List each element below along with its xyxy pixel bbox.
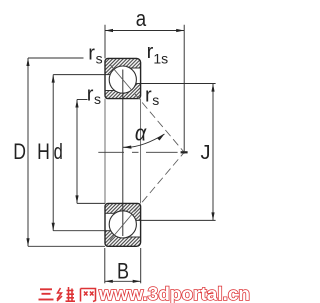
dimension H: bottom arrow: [52, 223, 55, 231]
svg-text:d: d: [54, 140, 63, 165]
svg-text:r: r: [88, 43, 95, 65]
contact line through upper ball (to pressure centre): [110, 64, 184, 152]
watermark: chinese char 维: [57, 287, 75, 301]
dimension D: top arrow: [26, 58, 29, 66]
dimension d: bottom leader: [77, 202, 105, 204]
ball pitch vertical centerline: [122, 70, 124, 237]
svg-text:r: r: [87, 83, 94, 105]
svg-text:1s: 1s: [153, 50, 168, 66]
outer/inner ring outline lower box: [105, 203, 141, 246]
dimension B: right extension line: [140, 248, 142, 283]
svg-text:α: α: [135, 121, 147, 145]
dimension a: line: [105, 30, 184, 32]
svg-text:s: s: [152, 92, 159, 108]
contact line through lower ball (to pressure centre): [110, 152, 184, 240]
raceway shoulder line lower inner-left: [105, 212, 115, 214]
raceway shoulder line upper-left (H level): [105, 74, 110, 76]
dimension D: top leader: [28, 57, 84, 59]
svg-text:s: s: [94, 91, 101, 107]
dimension B: right arrow: [133, 280, 141, 283]
dimension J: bottom arrow: [211, 212, 214, 220]
dimension B: line: [105, 280, 141, 282]
dimension d: line: [76, 100, 78, 204]
bearing face line right (between sections): [140, 99, 142, 204]
pressure centre tick: [181, 151, 188, 153]
dimension H: bottom leader: [53, 230, 105, 232]
bearing face line left (between sections): [104, 99, 106, 204]
horizontal axis centerline: [98, 151, 124, 153]
svg-text:B: B: [117, 260, 129, 284]
dimension H: line: [52, 75, 54, 231]
dimension H: top leader: [53, 74, 105, 76]
dimension J: bottom leader: [141, 219, 216, 221]
inner ring upper section (hatched): [105, 84, 141, 99]
svg-text:r: r: [145, 84, 152, 106]
dimension D: line: [27, 58, 29, 246]
inner ring lower section (hatched): [105, 203, 141, 220]
dimension B: left arrow: [105, 280, 113, 283]
outer ring lower section (hatched): [105, 231, 141, 247]
contact angle arc with arrows: [123, 134, 165, 147]
dimension d: top arrow: [75, 100, 78, 108]
ball upper: [109, 66, 136, 93]
raceway shoulder line upper inner-left: [105, 90, 115, 92]
raceway shoulder line lower inner-right (J level): [136, 219, 141, 221]
raceway shoulder line lower-right: [128, 236, 141, 238]
dimension d: bottom arrow: [75, 195, 78, 203]
svg-text:J: J: [201, 142, 211, 164]
dimension a: right arrow: [176, 29, 184, 32]
dimension J: line: [212, 84, 214, 221]
svg-text:s: s: [96, 50, 103, 66]
dimension D: bottom arrow: [26, 238, 29, 246]
dimension H: top arrow: [52, 75, 55, 83]
dimension J: top leader: [141, 83, 216, 85]
svg-text:H: H: [37, 140, 50, 164]
outer/inner ring outline upper box: [105, 58, 141, 98]
svg-text:a: a: [136, 8, 147, 32]
svg-text:D: D: [13, 140, 26, 164]
svg-text:www.3dportal.cn: www.3dportal.cn: [98, 284, 250, 303]
dimension B: left extension line: [104, 248, 106, 283]
dimension a: left arrow: [105, 29, 113, 32]
raceway shoulder line upper inner-right (J level): [136, 83, 141, 85]
dimension d: top leader: [77, 99, 88, 101]
dimension a: left extension line: [104, 25, 106, 59]
dimension J: top arrow: [211, 84, 214, 92]
watermark: chinese char 网: [81, 289, 96, 302]
ball lower: [109, 211, 136, 238]
raceway shoulder line upper-right: [130, 67, 141, 69]
raceway shoulder line lower-left (H level): [105, 230, 111, 232]
dimension D: bottom leader: [28, 245, 105, 247]
dimension a: right extension line to pressure centre: [183, 25, 185, 154]
watermark: chinese char 三: [39, 289, 54, 299]
outer ring upper section (hatched): [105, 58, 141, 74]
